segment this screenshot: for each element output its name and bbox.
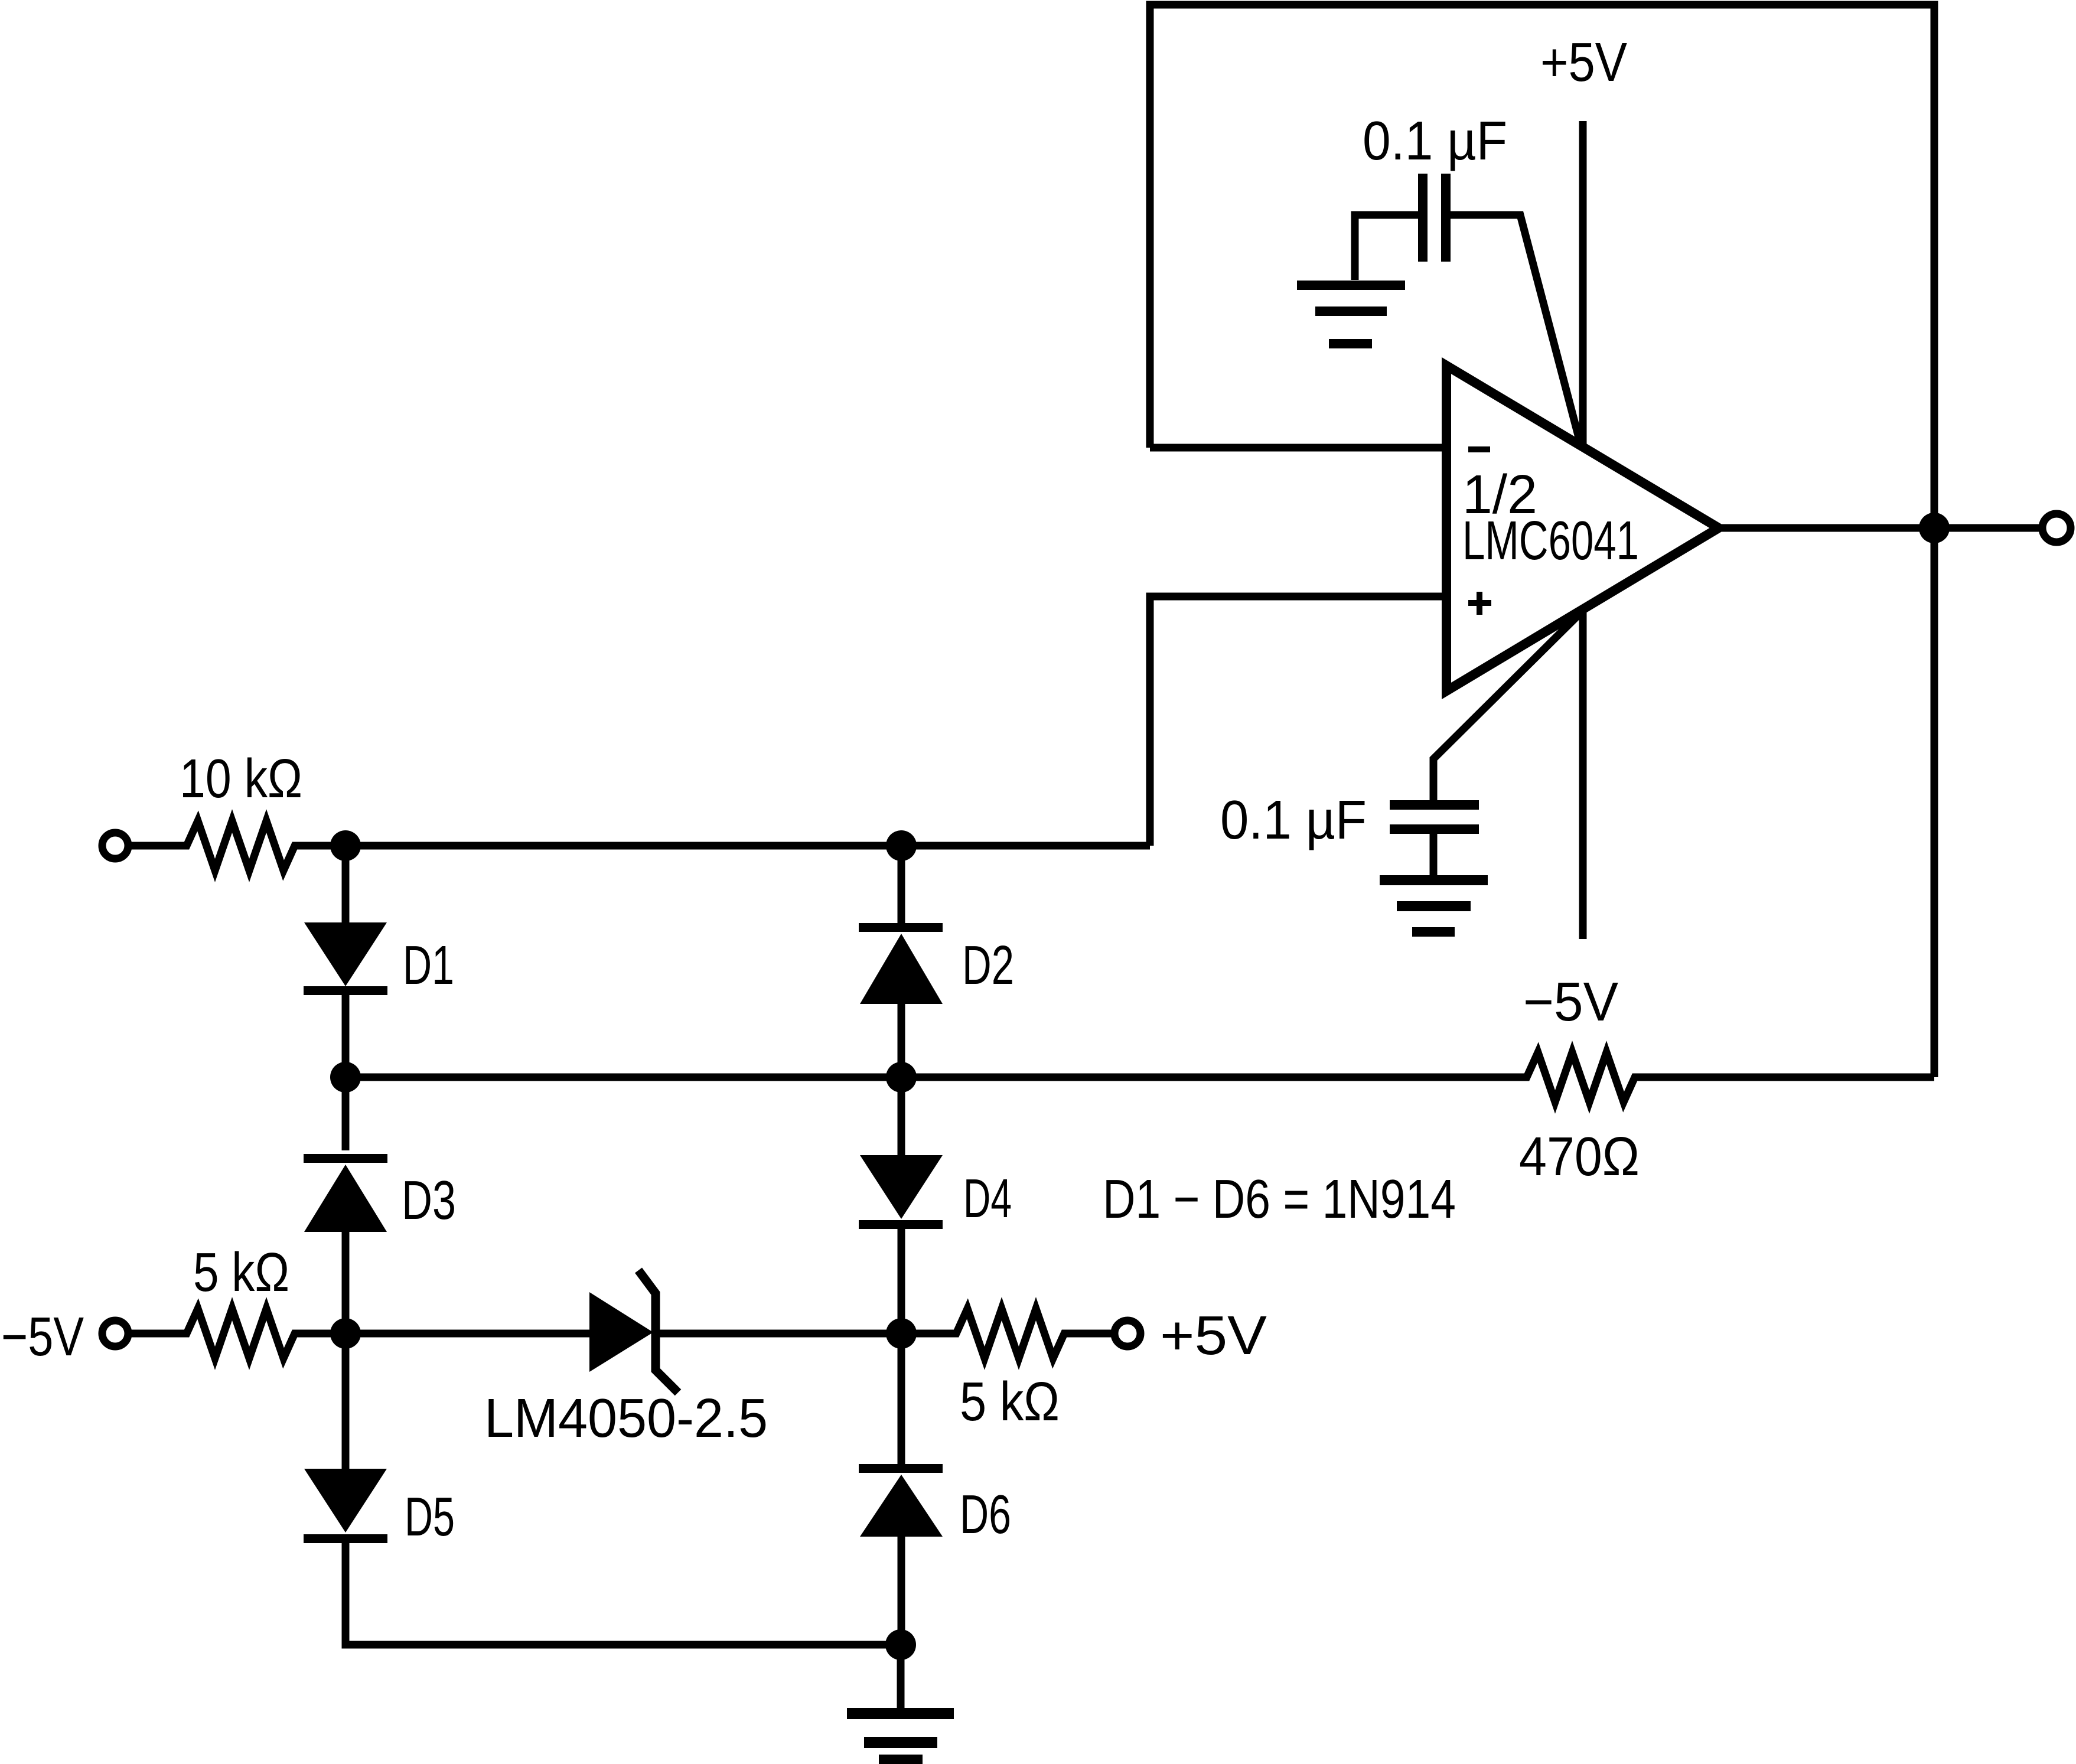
svg-text:0.1 µF: 0.1 µF (1363, 110, 1507, 171)
svg-text:−5V: −5V (1523, 971, 1618, 1032)
svg-text:LMC6041: LMC6041 (1462, 510, 1639, 571)
svg-text:D1 − D6 = 1N914: D1 − D6 = 1N914 (1103, 1168, 1456, 1230)
svg-text:−5V: −5V (1, 1306, 84, 1367)
svg-text:5 kΩ: 5 kΩ (193, 1241, 289, 1303)
svg-text:D6: D6 (960, 1483, 1011, 1545)
svg-text:0.1 µF: 0.1 µF (1220, 789, 1367, 850)
svg-text:10 kΩ: 10 kΩ (180, 748, 302, 809)
svg-text:D1: D1 (403, 934, 454, 996)
svg-text:LM4050-2.5: LM4050-2.5 (484, 1387, 768, 1449)
svg-text:5 kΩ: 5 kΩ (960, 1371, 1060, 1432)
svg-text:D4: D4 (963, 1168, 1012, 1229)
svg-text:D2: D2 (962, 934, 1014, 996)
svg-text:D3: D3 (402, 1169, 456, 1231)
svg-text:470Ω: 470Ω (1519, 1126, 1640, 1187)
svg-text:+5V: +5V (1160, 1305, 1267, 1366)
svg-text:+5V: +5V (1540, 31, 1627, 93)
svg-text:D5: D5 (405, 1486, 455, 1547)
